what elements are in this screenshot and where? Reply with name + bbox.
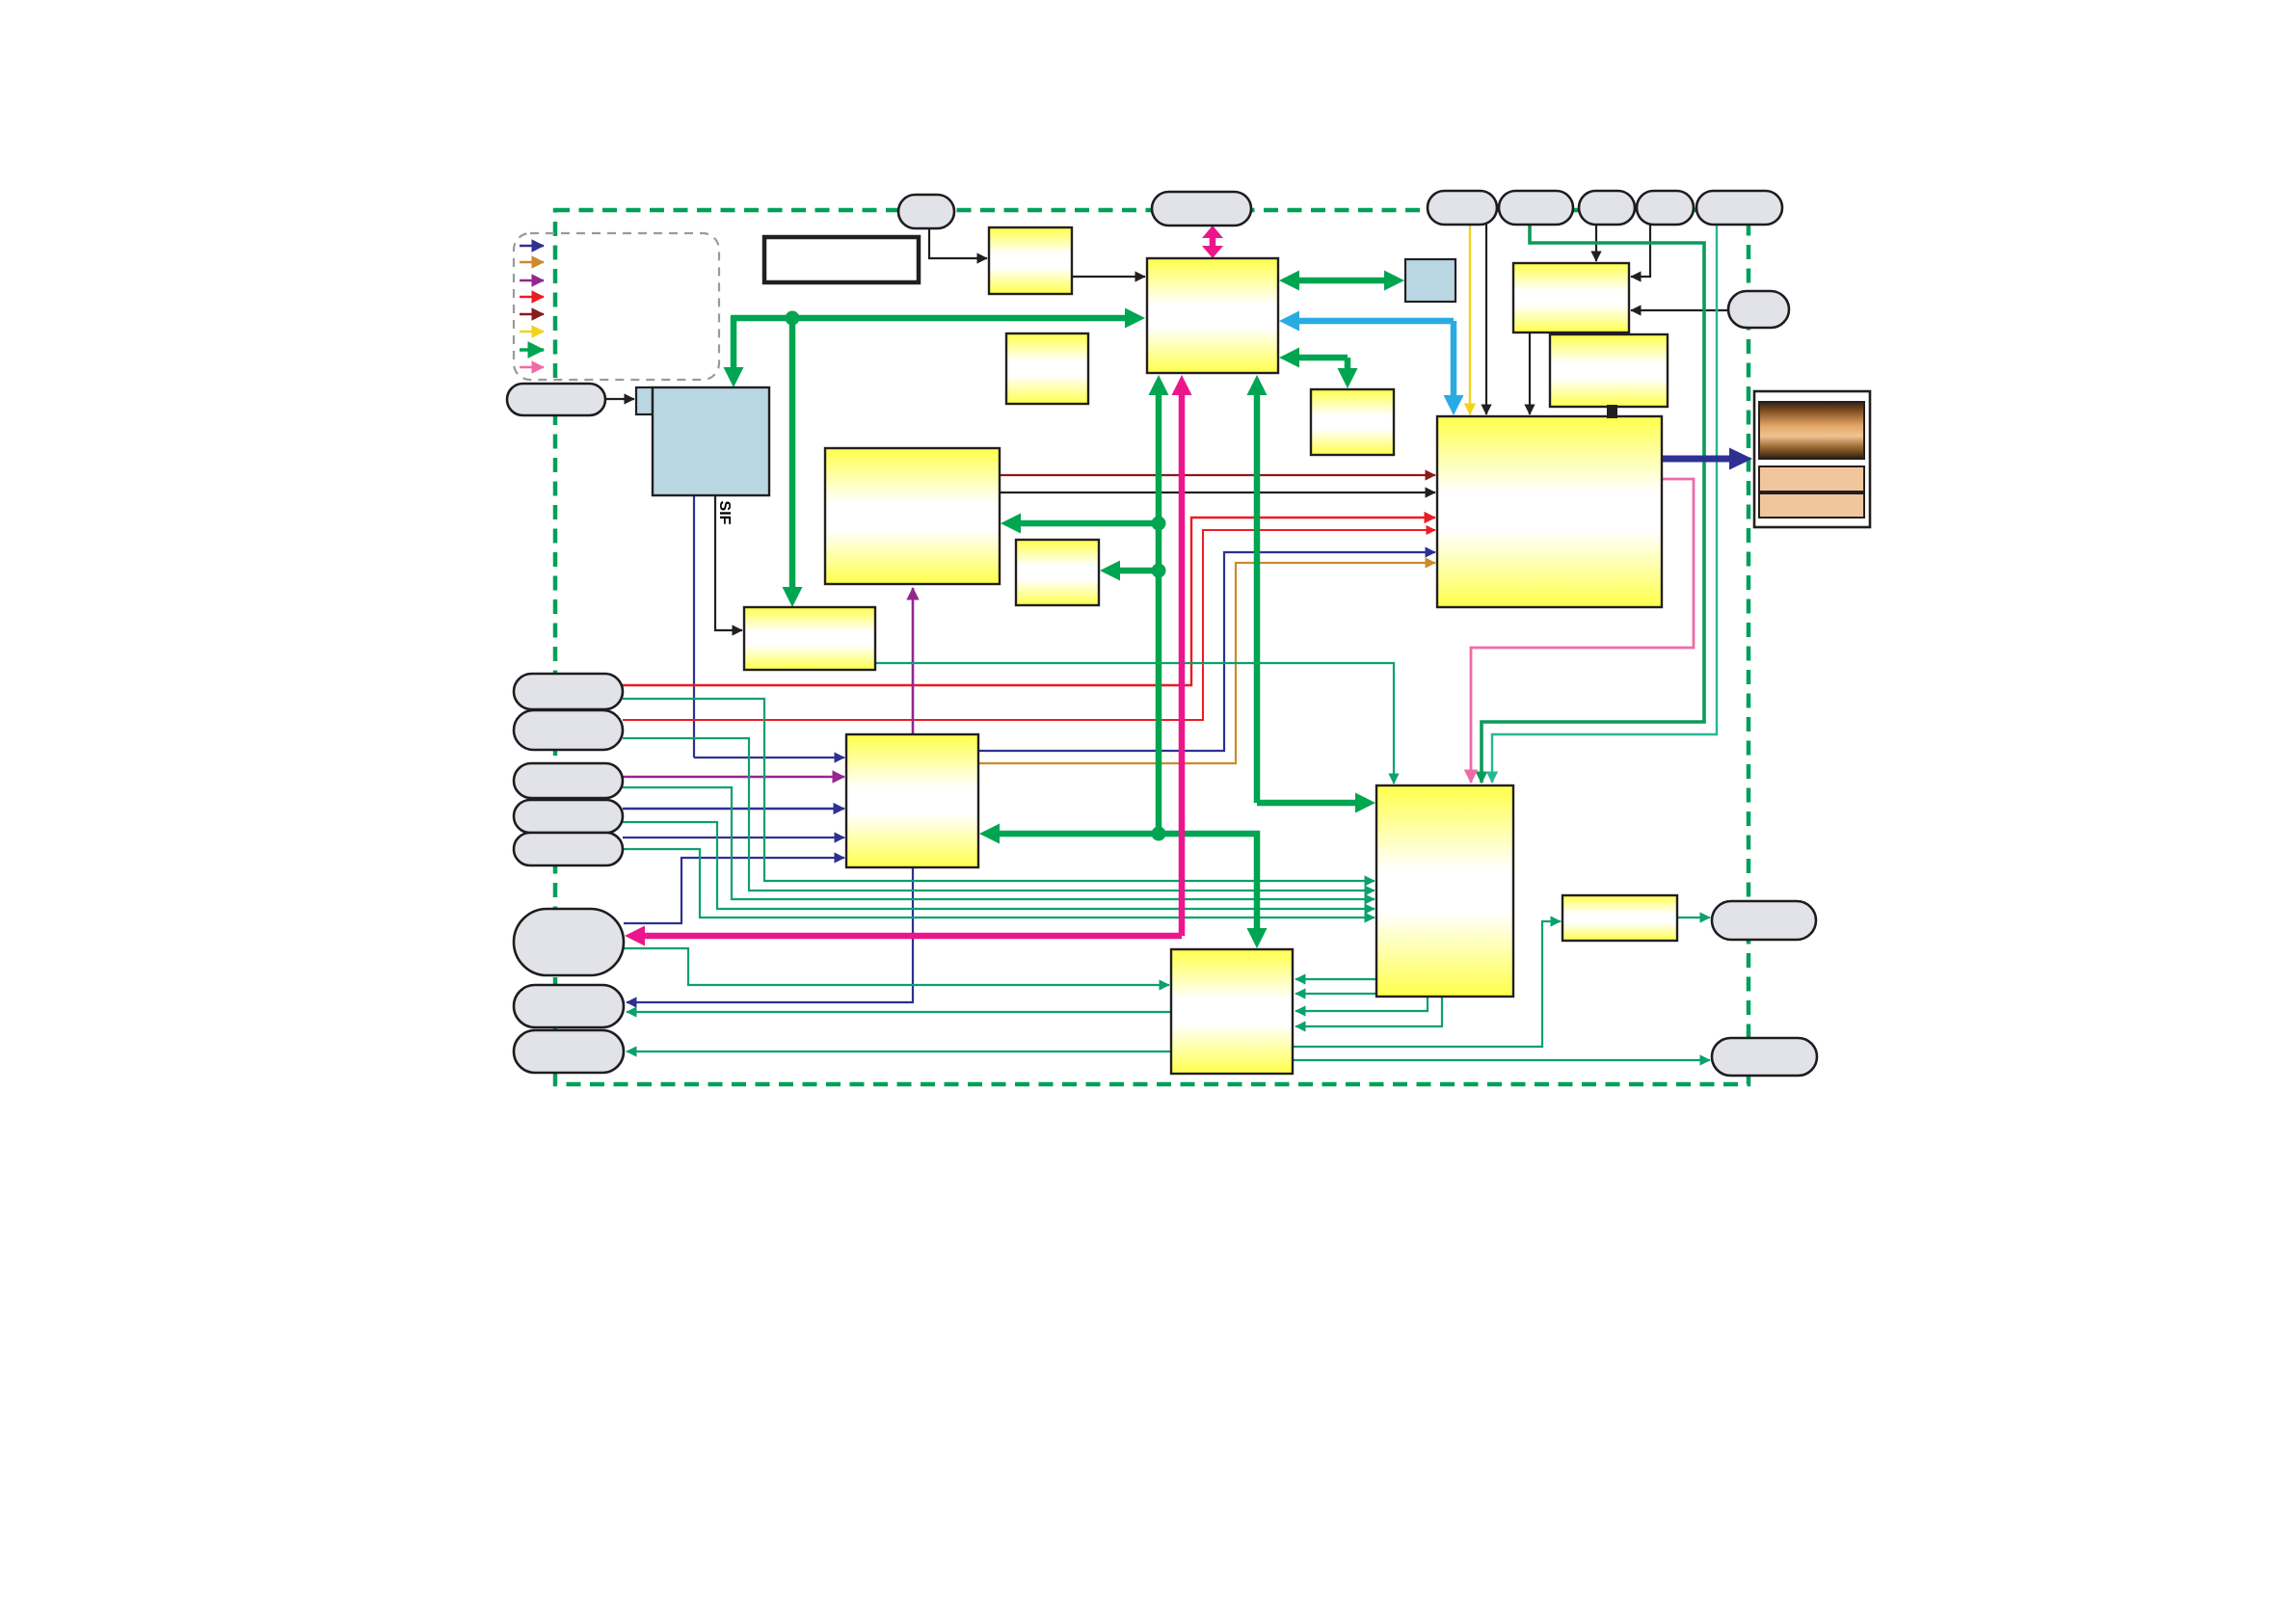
svg-text:SIF: SIF bbox=[716, 501, 733, 525]
